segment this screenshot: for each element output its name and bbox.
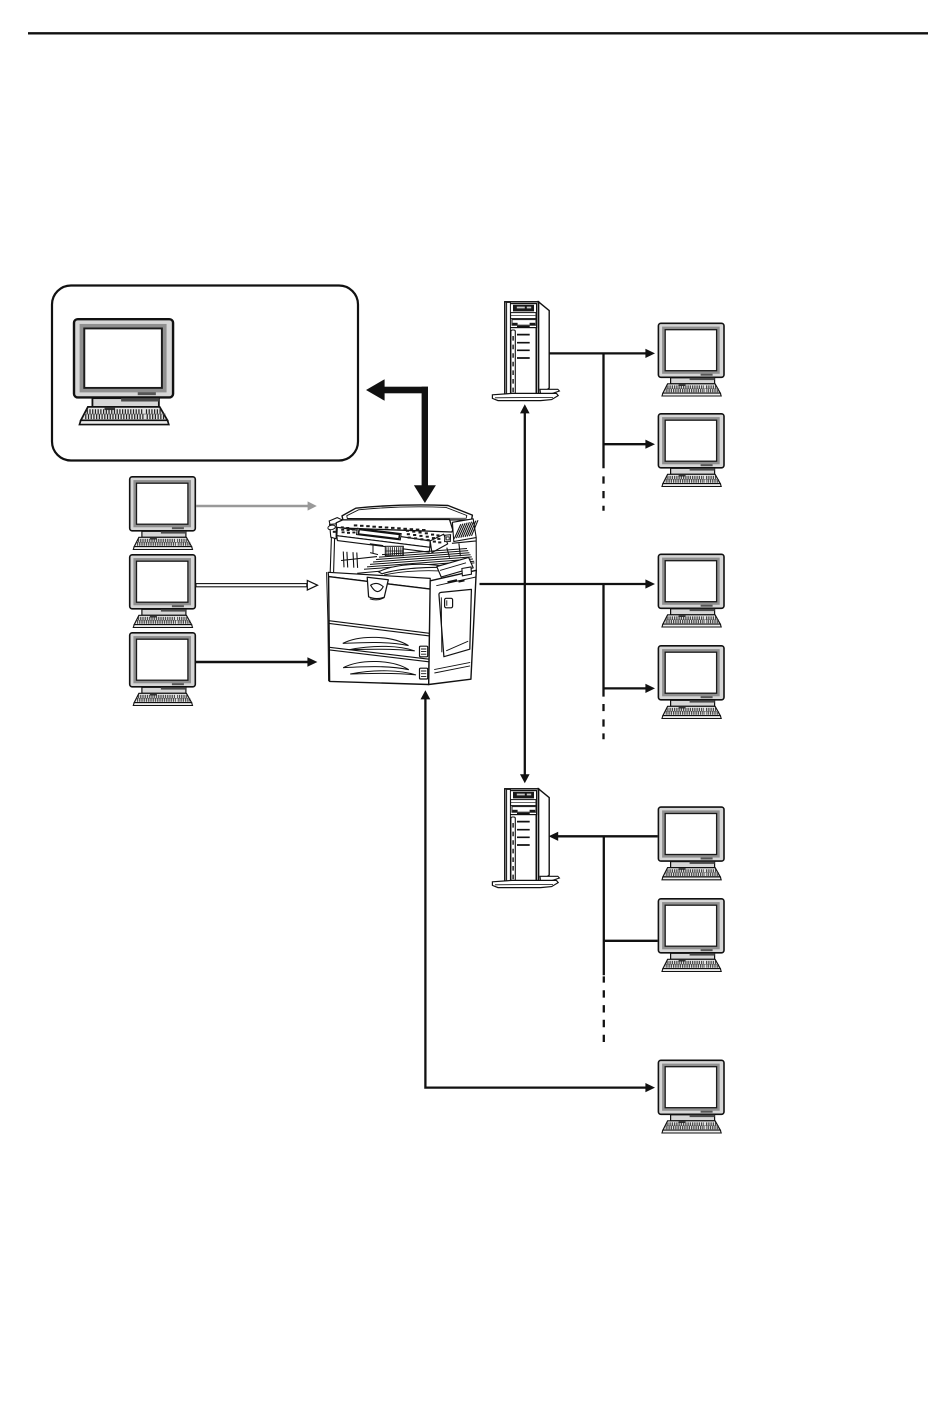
left computer L2: [130, 555, 196, 628]
client group rounded box: [52, 286, 358, 461]
thick two-headed arrow printer-client: [366, 379, 436, 503]
printer: control panel: [337, 527, 430, 547]
wire branch to C4: [604, 687, 647, 689]
server S2: [492, 789, 559, 888]
wire server1 to C1: [549, 352, 646, 354]
right computer C7: [658, 1060, 724, 1133]
printer: front handle: [367, 577, 388, 598]
dashed continuation (top group): [602, 476, 604, 510]
gray arrow L1 to printer: [196, 505, 308, 507]
client computer (large): [74, 319, 173, 424]
wire printer to C3: [480, 583, 647, 585]
right computer C1: [658, 323, 724, 396]
printer: platen lid: [342, 505, 472, 520]
printer: paper stack: [379, 564, 451, 574]
right computer C2: [658, 414, 724, 487]
wire branch down (top group): [602, 353, 604, 468]
printer: drawer latch 2: [420, 668, 428, 679]
wire C5 to server2: [558, 835, 658, 837]
double arrow server1-server2: [524, 413, 526, 775]
server S1: [492, 302, 559, 401]
printer: right vent: [452, 519, 476, 542]
left computer L3: [130, 633, 196, 706]
wire branch to C2: [604, 443, 647, 445]
hollow arrow L2 to printer: [196, 584, 307, 587]
right computer C3: [658, 554, 724, 627]
dashed continuation (mid group): [602, 704, 604, 739]
printer: drawer swoosh 1: [343, 637, 409, 645]
printer: drawer latch 1: [420, 646, 428, 657]
printer: left hinge: [329, 518, 342, 526]
wire branch down (mid group): [602, 584, 604, 697]
printer: side door: [439, 589, 471, 656]
printer: body front: [328, 572, 430, 589]
printer: left cap: [330, 524, 337, 539]
right computer C4: [658, 646, 724, 719]
right computer C6: [658, 899, 724, 972]
printer: cavity: [330, 538, 377, 573]
wire printer bottom long: [421, 690, 431, 699]
black arrow L3 to printer: [196, 661, 308, 664]
printer: side tray: [437, 557, 473, 577]
printer: output tray: [364, 549, 474, 570]
top rule: [28, 32, 928, 34]
wire branch down (bottom group): [603, 836, 605, 975]
printer: scanner deck: [336, 519, 453, 532]
dashed continuation (bottom group): [603, 976, 605, 1042]
printer: side tab: [462, 567, 472, 576]
printer: right side: [429, 570, 477, 684]
wire branch to C6: [604, 940, 658, 942]
right computer C5: [658, 807, 724, 880]
left computer L1: [130, 477, 196, 550]
printer: drawer swoosh 2: [343, 661, 409, 669]
